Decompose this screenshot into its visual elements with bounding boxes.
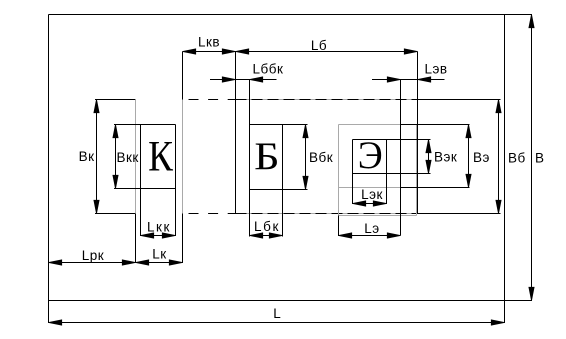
svg-text:К: К xyxy=(148,133,173,180)
svg-text:Вбк: Вбк xyxy=(309,150,333,165)
svg-text:Lк: Lк xyxy=(152,247,166,262)
svg-text:Lрк: Lрк xyxy=(82,248,104,263)
svg-text:Lбк: Lбк xyxy=(254,219,280,234)
svg-text:Lэк: Lэк xyxy=(361,187,383,202)
svg-text:L: L xyxy=(273,306,281,321)
svg-text:Э: Э xyxy=(358,134,383,177)
svg-text:Lб: Lб xyxy=(311,38,327,53)
svg-text:Lкк: Lкк xyxy=(147,220,171,235)
svg-text:В: В xyxy=(535,151,545,166)
svg-text:Вэк: Вэк xyxy=(434,150,457,165)
svg-text:Lэ: Lэ xyxy=(364,221,379,236)
svg-text:Вб: Вб xyxy=(508,151,526,166)
svg-text:Lэв: Lэв xyxy=(424,62,447,77)
svg-text:Lкв: Lкв xyxy=(198,35,220,50)
svg-text:Б: Б xyxy=(254,135,279,178)
svg-text:Вкк: Вкк xyxy=(117,150,139,165)
svg-text:Вэ: Вэ xyxy=(473,150,490,165)
svg-text:Вк: Вк xyxy=(79,149,95,164)
svg-text:Lббк: Lббк xyxy=(253,62,284,77)
